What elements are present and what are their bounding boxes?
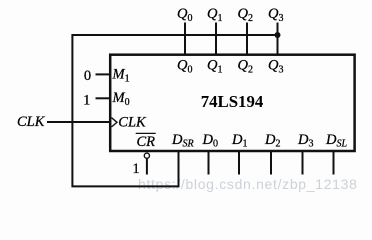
pin CR bubble [144, 153, 149, 158]
svg-text:0: 0 [84, 68, 91, 84]
wire D1 stub [238, 152, 240, 175]
svg-text:74LS194: 74LS194 [201, 92, 264, 111]
wire Q3 output [277, 23, 279, 55]
svg-text:1: 1 [83, 93, 90, 109]
svg-text:1: 1 [132, 161, 139, 177]
svg-text:CR: CR [137, 134, 156, 150]
svg-text:CLK: CLK [118, 114, 147, 130]
wire Q0 output [184, 23, 186, 55]
junction Q3/feedback [275, 32, 281, 38]
wire D3 stub [302, 152, 304, 175]
wire D0 stub [208, 152, 210, 175]
svg-text:https://blog.csdn.net/zbp_1213: https://blog.csdn.net/zbp_12138 [138, 176, 358, 192]
svg-text:CLK: CLK [17, 114, 46, 130]
wire M0 input [96, 97, 111, 99]
wire feedback Q3 to DSR (top, left, bottom, up) [72, 35, 277, 186]
wire CLK input [47, 121, 110, 123]
wire DSL stub [333, 152, 335, 175]
wire Q2 output [246, 23, 248, 55]
pin CLK edge-trigger symbol [112, 118, 118, 127]
wire Q1 output [215, 23, 217, 55]
overline CR [136, 132, 156, 134]
wire D2 stub [270, 152, 272, 175]
wire CR input [146, 158, 148, 174]
wire M1 input [96, 73, 111, 75]
IC U1 74LS194 body [110, 55, 354, 151]
